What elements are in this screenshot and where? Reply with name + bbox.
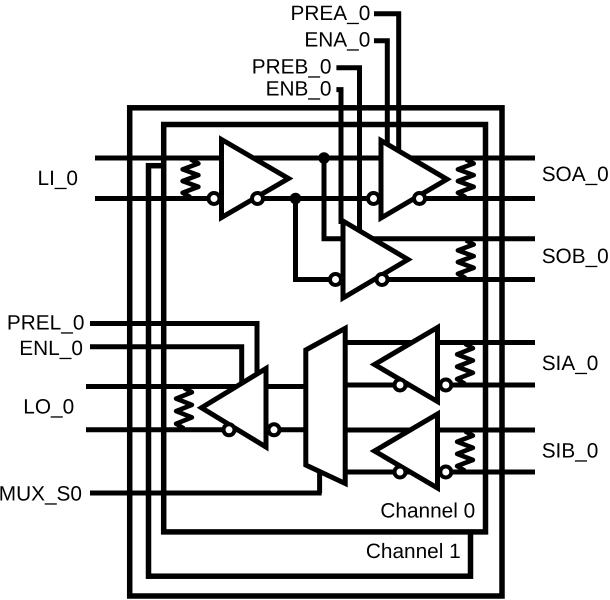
- svg-text:SIB_0: SIB_0: [542, 439, 599, 462]
- svg-text:ENL_0: ENL_0: [19, 337, 83, 360]
- svg-text:Channel 1: Channel 1: [366, 540, 461, 563]
- svg-text:SOB_0: SOB_0: [542, 245, 609, 268]
- svg-text:MUX_S0: MUX_S0: [0, 482, 82, 505]
- svg-text:PREB_0: PREB_0: [252, 56, 332, 79]
- svg-text:ENB_0: ENB_0: [266, 77, 332, 100]
- svg-text:SIA_0: SIA_0: [542, 352, 599, 375]
- svg-text:LI_0: LI_0: [38, 167, 78, 190]
- svg-text:Channel 0: Channel 0: [380, 499, 475, 522]
- svg-text:LO_0: LO_0: [23, 395, 74, 418]
- svg-text:PREL_0: PREL_0: [7, 312, 84, 335]
- svg-text:SOA_0: SOA_0: [542, 163, 609, 186]
- svg-text:PREA_0: PREA_0: [291, 2, 371, 25]
- svg-text:ENA_0: ENA_0: [304, 28, 370, 51]
